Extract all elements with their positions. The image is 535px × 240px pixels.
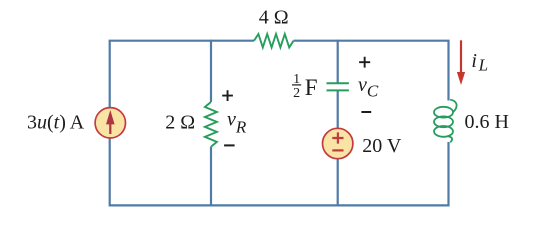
- label minus for vC: [361, 111, 371, 113]
- inductor 0.6 H coil: [434, 100, 457, 143]
- voltage source plus mark: [332, 132, 343, 143]
- voltage source minus mark: [332, 149, 343, 151]
- label + for vR: [222, 90, 233, 101]
- svg-text:2 Ω: 2 Ω: [165, 112, 195, 134]
- wire capacitor branch lower: [337, 158, 339, 206]
- svg-text:0.6 H: 0.6 H: [465, 111, 509, 133]
- wire top-right and upper-right side: [294, 41, 449, 101]
- current arrow iL: [460, 40, 462, 73]
- label + for vC: [359, 57, 370, 68]
- current source 3u(t) A: [95, 108, 125, 138]
- capacitor 1/2 F plates: [327, 83, 349, 90]
- current source arrow: [109, 123, 111, 135]
- svg-text:F: F: [305, 75, 318, 100]
- svg-text:2: 2: [293, 86, 300, 101]
- voltage source 20 V: [323, 128, 353, 158]
- wire 2-ohm branch lower: [210, 147, 212, 207]
- label 1/2 F: [292, 72, 317, 101]
- svg-text:4 Ω: 4 Ω: [259, 7, 289, 29]
- svg-text:iL: iL: [471, 50, 488, 75]
- wire capacitor branch middle: [337, 91, 339, 131]
- wire 2-ohm branch upper: [210, 40, 212, 102]
- wire capacitor branch upper: [337, 40, 339, 83]
- svg-text:vR: vR: [227, 108, 247, 136]
- label minus for vR: [224, 144, 235, 146]
- svg-text:20 V: 20 V: [362, 135, 402, 157]
- resistor 4 ohm (zigzag): [254, 34, 294, 47]
- svg-text:vC: vC: [358, 74, 379, 101]
- wire outer loop: top-left, left side, bottom, lower-right: [110, 41, 449, 206]
- svg-text:3u(t) A: 3u(t) A: [27, 112, 85, 134]
- resistor 2 ohm (zigzag): [205, 102, 217, 147]
